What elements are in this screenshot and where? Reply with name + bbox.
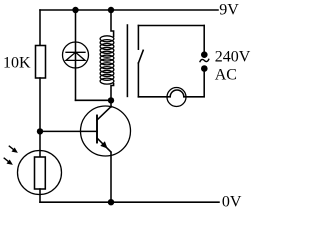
lamp L1 envelope circle — [167, 88, 186, 107]
transistor Q1 collector stroke — [97, 106, 111, 120]
node: resistor/LDR/base junction — [37, 128, 43, 134]
relay switch blade (open contact) — [138, 50, 143, 63]
node: AC supply terminal lower — [201, 65, 208, 72]
LDR envelope circle — [18, 151, 62, 195]
LDR resistive element body — [35, 157, 46, 189]
transistor Q1 envelope circle — [81, 106, 131, 156]
resistor 10K body — [36, 46, 46, 79]
svg-text:240V: 240V — [215, 48, 251, 65]
wire: 0V supply rail (bottom) — [40, 201, 219, 203]
svg-text:10K: 10K — [3, 54, 31, 71]
node: AC supply terminal upper — [201, 51, 208, 58]
wire: left branch from 9V rail to resistor top — [39, 10, 41, 46]
wire: contact box top edge — [138, 25, 204, 27]
wire: +9V supply rail (top) — [40, 9, 218, 11]
wire: collector node down to transistor — [110, 100, 112, 107]
node: 9V rail / relay coil junction — [108, 7, 114, 13]
wire: diode bottom horizontal to collector node — [76, 99, 112, 101]
LDR light arrow 1 — [9, 146, 18, 153]
diode D1 cathode bar — [66, 51, 85, 53]
node: emitter / 0V rail junction — [108, 199, 114, 205]
AC tilde symbol — [200, 59, 209, 61]
wire: coil bottom lead to collector node — [111, 84, 114, 101]
svg-text:0V: 0V — [222, 194, 242, 211]
transistor Q1 emitter arrowhead — [100, 141, 107, 148]
node: collector/coil/diode junction — [108, 97, 114, 103]
wire: LDR bottom lead to 0V rail — [39, 189, 41, 202]
wire: contact box left side lower — [137, 63, 139, 97]
LDR light arrow 2 — [4, 158, 13, 165]
transistor Q1 base bar — [96, 116, 98, 143]
wire: emitter down to 0V rail — [110, 152, 112, 202]
svg-text:9V: 9V — [219, 1, 239, 18]
wire: base junction to transistor base — [40, 130, 97, 132]
svg-text:AC: AC — [215, 67, 237, 84]
wire: contact box bottom edge with lamp hump — [138, 69, 204, 97]
transistor Q1 emitter stroke — [97, 138, 111, 152]
wire: resistor bottom to base junction and down to LDR — [39, 78, 41, 157]
diode D1 triangle (anode, pointing up) — [66, 52, 85, 60]
relay armature/core line — [126, 25, 128, 96]
relay coil RLA (solenoid loops) — [100, 36, 114, 84]
node: 9V rail / diode branch junction — [72, 7, 78, 13]
wire: coil top lead — [111, 10, 114, 37]
wire: contact box right side upper to AC terminal — [203, 26, 205, 55]
wire: contact box left side upper (fixed contact) — [137, 26, 139, 50]
diode D1 envelope circle — [63, 42, 89, 68]
wire: diode branch vertical (through diode) down to collector node wire — [75, 10, 77, 100]
